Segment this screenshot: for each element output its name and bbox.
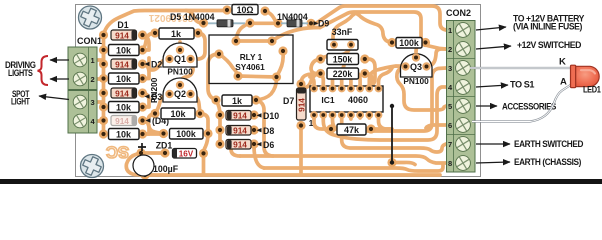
diode D4 optional faded [111,116,137,127]
svg-text:220k: 220k [333,69,353,79]
wire bus L131 to screw3 [333,68,447,131]
wire top bus A [311,6,446,30]
svg-text:3: 3 [91,98,95,107]
wire top bus B left [104,11,228,36]
wire relay pad link top [236,39,272,43]
wire 1k1 ends [142,33,205,59]
diode D6 [226,140,251,150]
diode D1 [111,30,137,41]
mounting hole bottom-left [80,154,103,177]
wire relay right down [256,77,277,100]
wire 150k right [365,59,375,87]
mounting hole top-left [78,6,101,29]
svg-text:10k: 10k [116,74,132,84]
resistor 10k r3 [109,102,140,113]
svg-text:2: 2 [91,75,95,84]
resistor 10k r1 [109,45,140,56]
resistor 1k r8 [222,95,252,106]
svg-text:4060: 4060 [348,95,368,105]
svg-text:D1: D1 [117,20,128,30]
svg-text:PN100: PN100 [403,76,429,86]
diode D3 [111,88,137,99]
label D4 [146,118,151,122]
svg-text:ACCESSORIES: ACCESSORIES [502,102,556,113]
wire cap to 16V [141,151,165,155]
connector CON1 [68,36,102,133]
wire 220k left [301,74,321,89]
svg-text:D5 1N4004: D5 1N4004 [170,12,215,22]
svg-text:3: 3 [448,64,452,73]
wire CON1 stub 4 [86,119,104,123]
wire col pairs left [102,50,106,134]
wire 220k right [365,74,372,88]
wire CON1 stub 2 [86,64,104,79]
arrow con1-3 [39,96,69,100]
svg-text:LIGHT: LIGHT [11,97,30,108]
wire Q1 pads [149,42,180,70]
wire col right vertical [143,35,150,134]
svg-text:6: 6 [448,121,452,130]
svg-text:SY4061: SY4061 [235,62,265,72]
arrow con2-1 [476,27,506,30]
arrow con2-2 [476,46,511,49]
wire D6 riser R3 [254,146,264,168]
svg-text:914: 914 [296,98,306,112]
wire 150k left [311,59,321,74]
wire IC pin right [379,68,393,89]
wire bus L143 to screw4 [323,87,446,140]
wire Q3 right to riser [427,49,447,67]
wire IC pin9 drop [379,115,393,129]
wire bus L175 [140,173,440,177]
LED1 body [571,65,600,87]
svg-text:LIGHTS: LIGHTS [8,68,33,79]
svg-text:Q3: Q3 [410,62,422,72]
wire 10k6 ends [148,114,208,134]
wire 33nF bottom [322,44,350,58]
wire top bus B right [265,11,277,23]
arrow con1-2 [50,78,69,80]
resistor 100k r9 [396,38,422,49]
bottom black bar [0,179,602,184]
svg-text:D10: D10 [263,111,279,121]
wire Q3 left pad elbow [397,67,446,111]
wire IC pin to Q3 [369,66,405,89]
svg-text:IC1: IC1 [321,95,335,105]
wire top band2 to CON2-2 [320,12,446,49]
resistor 10ohm [232,5,258,15]
wire link black [390,104,394,165]
svg-text:PN200: PN200 [149,77,159,103]
wire CON2-6 stub [426,125,446,128]
resistor 10k r2 [109,73,140,84]
svg-text:A: A [560,77,567,88]
capacitor 100uF [133,143,154,176]
svg-text:150k: 150k [333,55,353,65]
svg-text:CON1: CON1 [77,36,102,46]
diode D5 1N4004 [170,12,245,27]
svg-text:1: 1 [309,119,314,128]
resistor 220k [327,68,359,79]
svg-text:EARTH (CHASSIS): EARTH (CHASSIS) [514,157,581,168]
IC IC1 4060 [310,86,383,112]
LED1 wires [470,68,572,122]
transistor Q3 [401,53,433,77]
resistor 47k [337,124,366,135]
svg-text:7: 7 [448,140,452,149]
red brace [38,56,49,85]
svg-text:(VIA INLINE FUSE): (VIA INLINE FUSE) [513,22,582,33]
transistor Q2 [163,78,197,102]
wire IC bottom pins short [314,115,369,129]
wire IC top pins fan [310,64,360,89]
wire D10 left up [216,100,220,115]
arrow con2-4 [476,85,508,87]
resistor 10k r6 [161,108,195,119]
wire 33nF top [333,14,355,45]
arrow con2-5 [476,105,497,107]
svg-text:PN100: PN100 [167,67,193,77]
diode D7 vertical [296,88,306,120]
svg-text:1k: 1k [171,29,182,39]
svg-text:10k: 10k [170,109,186,119]
svg-text:LED1: LED1 [583,85,601,96]
svg-text:10k: 10k [116,46,132,56]
wire CON1 stub 1 [86,35,104,60]
wire 100k right drop [204,134,209,176]
resistor 100k r7 [170,129,204,140]
svg-text:+12V SWITCHED: +12V SWITCHED [517,40,582,51]
arrow con2-8 [476,162,510,163]
relay RLY1 [209,35,293,84]
wire bus L163 [392,162,415,164]
wire cap left curve to bus [126,153,146,175]
svg-text:33nF: 33nF [332,27,353,37]
zener ZD1 16V [173,149,197,159]
svg-text:8: 8 [448,159,452,168]
svg-text:TO S1: TO S1 [510,80,535,91]
svg-text:914: 914 [233,140,247,150]
svg-text:914: 914 [233,126,247,136]
diode D2 [111,59,137,70]
svg-text:100k: 100k [399,38,419,48]
arrow con2-7 [476,143,510,145]
wire relay left to 1k2 [208,54,219,100]
wire D5 left [186,11,204,24]
svg-text:ZD1: ZD1 [156,141,173,151]
wire 47k to link [371,127,392,131]
wire D5-D9 link [249,21,278,25]
svg-text:Q1: Q1 [174,54,186,64]
svg-text:EARTH SWITCHED: EARTH SWITCHED [514,139,584,150]
wire D6 riser R1 [231,149,240,156]
svg-text:1: 1 [448,26,452,35]
svg-text:RLY 1: RLY 1 [240,52,263,62]
svg-text:K: K [559,57,566,68]
wire relay top to D5 pad [236,23,249,41]
svg-text:914: 914 [115,31,129,41]
wire bus L156 to screw8 [240,156,446,163]
svg-text:16V: 16V [179,150,194,159]
svg-text:914: 914 [233,111,247,121]
svg-text:914: 914 [115,89,129,99]
svg-text:914: 914 [115,116,129,126]
svg-text:10k: 10k [116,103,132,113]
wire D7 bottom drop [299,126,303,176]
svg-text:CON2: CON2 [446,8,471,18]
svg-text:D2: D2 [151,60,162,70]
label D3 [145,94,150,98]
connector CON2 [446,8,475,172]
resistor 150k [327,54,359,65]
label D2 [145,62,150,66]
wire D col left vertical [218,115,222,144]
svg-text:D9: D9 [318,19,329,29]
wire Q2 pads [155,59,200,114]
wire Q3 centre up [416,43,426,58]
svg-text:914: 914 [115,60,129,70]
wire 100k2 left up [354,13,392,43]
wire D7 top [301,74,318,85]
svg-text:Q2: Q2 [174,89,186,99]
wire bus L170 [264,165,443,171]
PCB board outline [76,5,481,177]
svg-text:5: 5 [448,102,452,111]
arrow con1-1 [50,59,69,61]
svg-text:D7: D7 [283,96,294,106]
wire 1k2 right drop [256,100,273,156]
diode D9 1N4004 [277,12,329,29]
wire 100k to 10k row [143,132,164,136]
wire CON1 stub 3 [86,93,104,102]
svg-text:100µF: 100µF [153,164,179,174]
svg-text:10k: 10k [116,130,132,140]
svg-text:D6: D6 [263,140,274,150]
wire D col right stubs [254,115,257,144]
svg-text:1k: 1k [232,96,243,106]
svg-text:2: 2 [448,45,452,54]
wire bus L148 to screw7 [342,115,446,152]
wire relay pad to bus [272,28,320,42]
wire relay left diag [219,54,238,76]
diode D10 [226,111,251,121]
resistor 10k r4 [109,129,140,140]
transistor Q1 [163,43,197,67]
svg-text:SC: SC [106,143,129,161]
svg-text:D8: D8 [263,126,274,136]
diode D8 [226,126,251,136]
wire relay bottom link [238,76,277,77]
svg-text:1: 1 [91,56,95,65]
capacitor 33nF [327,27,358,50]
resistor 1k r5 [159,28,194,39]
wire relay right diag [277,51,284,77]
svg-text:47k: 47k [344,125,360,135]
svg-text:10Ω: 10Ω [237,5,254,15]
svg-text:100k: 100k [176,129,196,139]
